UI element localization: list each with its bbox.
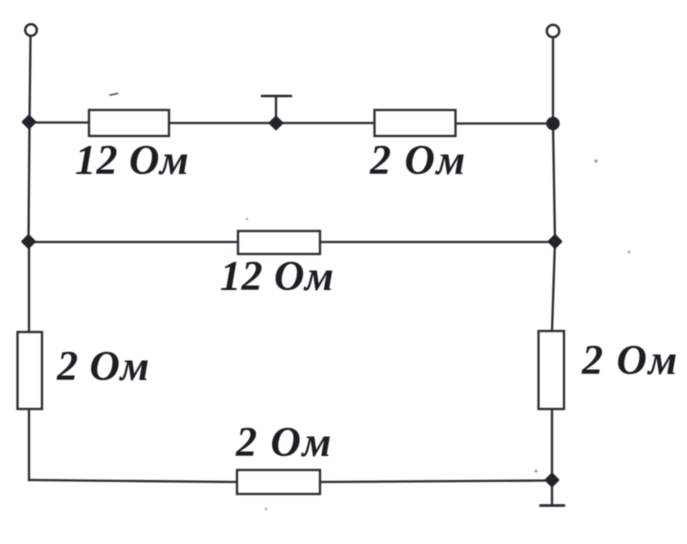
node E junction dot bbox=[549, 236, 561, 248]
wire middle row: node D to resistor R3 bbox=[29, 241, 238, 243]
wire left rail: node A to node D bbox=[29, 122, 30, 242]
resistor R4 (2 Ом, left) bbox=[18, 332, 43, 409]
resistor R2 (2 Ом, top right) bbox=[375, 110, 456, 136]
svg-text:2 Ом: 2 Ом bbox=[56, 344, 150, 390]
node B junction dot bbox=[548, 118, 559, 129]
wire right rail: node E to resistor R5 bbox=[552, 241, 555, 331]
wire bottom row: R6 to node F bbox=[320, 481, 552, 483]
node D junction dot bbox=[23, 236, 35, 248]
wire right rail: R5 to node F bbox=[551, 409, 553, 480]
wire right rail: terminal T2 to node B bbox=[552, 38, 554, 123]
resistor R5 (2 Ом, right) bbox=[539, 331, 565, 409]
svg-text:2 Ом: 2 Ом bbox=[369, 138, 467, 184]
resistor R6 (2 Ом, bottom) bbox=[237, 470, 320, 494]
wire top row: R1 to tap node C bbox=[170, 122, 276, 124]
terminal T2 (top right) bbox=[547, 25, 559, 37]
node C junction dot bbox=[270, 117, 282, 129]
node F junction dot bbox=[546, 474, 558, 486]
wire bottom row: corner to resistor R6 bbox=[29, 480, 237, 482]
ground bar bbox=[541, 504, 565, 507]
scan speckle bottom center bbox=[265, 508, 268, 511]
ground stub below node F bbox=[551, 480, 553, 504]
scan speckle right of top wire bbox=[594, 159, 597, 162]
resistor R1 (12 Ом, top left) bbox=[89, 110, 169, 136]
scan speckle bottom right bbox=[535, 470, 538, 473]
svg-text:12 Ом: 12 Ом bbox=[220, 254, 334, 300]
resistor R3 (12 Ом, middle) bbox=[238, 231, 320, 254]
wire left rail: node D to resistor R4 bbox=[28, 241, 30, 332]
wire top row: node A to resistor R1 bbox=[29, 121, 88, 123]
scan speckle above R1 bbox=[109, 93, 119, 97]
terminal T1 (top left) bbox=[25, 24, 37, 36]
wire left rail: terminal T1 to node A bbox=[30, 37, 31, 123]
tap symbol above node C bbox=[262, 96, 291, 122]
wire right rail: node B to node E bbox=[553, 123, 555, 242]
scan speckle above middle resistor bbox=[246, 218, 249, 221]
svg-text:2 Ом: 2 Ом bbox=[235, 420, 333, 466]
wire left rail: R4 to bottom corner bbox=[29, 409, 31, 480]
node A junction dot bbox=[23, 116, 35, 128]
scan speckle right middle bbox=[628, 251, 631, 254]
svg-text:12 Ом: 12 Ом bbox=[75, 138, 189, 184]
wire top row: node C to resistor R2 bbox=[276, 122, 374, 124]
wire top row: R2 to node B bbox=[456, 122, 553, 124]
svg-text:2 Ом: 2 Ом bbox=[581, 338, 679, 384]
wire middle row: R3 to node E bbox=[320, 241, 555, 243]
